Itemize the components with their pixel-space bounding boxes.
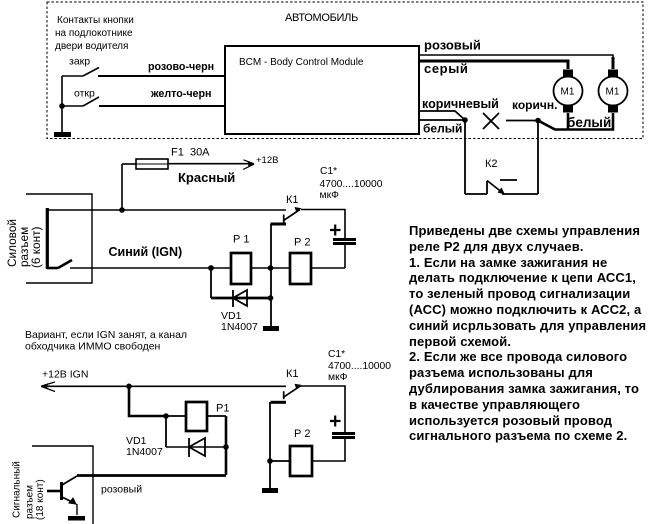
wire P1 right — [207, 415, 226, 417]
wire K2 right vertical — [537, 120, 539, 194]
switch open (откр) — [62, 97, 99, 106]
svg-text:+12В IGN: +12В IGN — [42, 369, 88, 381]
wire P1 right drop — [225, 416, 228, 475]
wire diode left drop (bottom) — [165, 416, 167, 447]
svg-text:розово-черн: розово-черн — [148, 61, 214, 73]
node diode right junction (bottom) — [223, 444, 229, 450]
svg-text:коричн.: коричн. — [512, 98, 557, 112]
wire коричневый — [419, 111, 465, 120]
wire розовый drop thick — [612, 57, 615, 69]
svg-text:Красный: Красный — [178, 170, 235, 185]
svg-text:Р 1: Р 1 — [233, 234, 250, 246]
svg-text:Р 2: Р 2 — [294, 237, 311, 249]
label door switch note — [55, 15, 134, 52]
node junction left of X — [462, 117, 468, 123]
svg-text:1N4007: 1N4007 — [221, 321, 258, 333]
svg-text:розовый: розовый — [101, 484, 142, 496]
svg-text:Сигнальный: Сигнальный — [12, 461, 23, 518]
relay contact K1 (bottom) — [271, 384, 302, 403]
fuse F1 — [136, 159, 168, 169]
svg-text:К1: К1 — [286, 368, 299, 380]
wire to P2 (bottom) — [270, 460, 290, 462]
relay contact K2 — [465, 180, 538, 195]
node P1 left junction — [208, 265, 214, 271]
relay contact K1 (middle) — [271, 207, 302, 224]
svg-text:4700....10000: 4700....10000 — [320, 179, 383, 190]
connector pin bar — [46, 208, 49, 269]
svg-text:BCM - Body Control Module: BCM - Body Control Module — [239, 57, 364, 68]
arrow +12V IGN — [41, 383, 48, 389]
node diode left junction — [208, 265, 214, 271]
label C1 value (bottom) — [328, 349, 391, 383]
wire +12 IGN bus — [41, 385, 286, 387]
wire K1 pivot down — [270, 224, 272, 327]
wire fuse drop vertical — [121, 164, 123, 210]
label C1 value — [320, 166, 383, 201]
capacitor C1 — [330, 225, 356, 269]
node switch common junction — [59, 103, 65, 109]
svg-text:мкФ: мкФ — [328, 372, 348, 383]
note text block right — [409, 223, 649, 444]
wire розово-черн — [98, 75, 225, 77]
relay coil P2 — [290, 253, 311, 284]
svg-text:белый: белый — [567, 115, 611, 130]
wire серый — [419, 61, 568, 69]
wire K1 pivot down (bottom) — [269, 402, 271, 489]
relay coil P1 — [231, 253, 251, 284]
connector signal (18 pin) box — [32, 446, 93, 524]
svg-text:Синий (IGN): Синий (IGN) — [109, 245, 183, 259]
cut mark X — [483, 113, 499, 129]
svg-text:разъем: разъем — [25, 485, 36, 519]
svg-text:откр: откр — [74, 88, 95, 100]
wire P2 to capacitor — [311, 267, 345, 269]
label VD1 1N4007 — [221, 310, 258, 333]
diode VD1 (middle) — [211, 290, 270, 307]
wire белый (from BCM) — [419, 119, 465, 121]
svg-text:обходчика ИММО свободен: обходчика ИММО свободен — [25, 341, 161, 353]
svg-text:закр: закр — [69, 56, 90, 68]
arrow +12V — [248, 161, 255, 167]
motor M1 right — [599, 70, 628, 113]
svg-text:С1*: С1* — [320, 166, 337, 177]
ground (middle) — [263, 326, 279, 331]
wire switch common vertical — [61, 76, 63, 133]
node IGN junction — [126, 384, 132, 390]
label Сигнальный разъем (18 конт) — [12, 461, 47, 520]
node K1 vertical junction — [268, 265, 274, 271]
wire to P1 — [166, 415, 186, 417]
wire diagonal to белый bus — [538, 113, 613, 130]
node P2 junction (bottom) — [267, 458, 273, 464]
svg-text:М1: М1 — [606, 87, 620, 98]
node fuse junction — [119, 207, 125, 213]
wire K1 to capacitor (bottom) — [300, 386, 345, 434]
switch ignition contact — [47, 260, 72, 268]
label Силовой разъем (6 конт) — [5, 219, 43, 268]
wire left motor to белый bus — [567, 113, 570, 129]
svg-text:4700....10000: 4700....10000 — [328, 361, 391, 372]
svg-text:белый: белый — [423, 122, 462, 136]
svg-text:М1: М1 — [561, 87, 575, 98]
svg-text:(18 конт): (18 конт) — [35, 479, 46, 520]
label VD1 1N4007 (bottom) — [126, 435, 163, 458]
svg-text:двери водителя: двери водителя — [55, 41, 128, 52]
wire K2 left vertical — [464, 120, 466, 194]
wire +12 bus to K1 — [48, 209, 286, 211]
svg-text:+12В: +12В — [256, 155, 278, 166]
svg-text:мкФ: мкФ — [320, 190, 340, 201]
BCM module box U1 — [225, 46, 419, 134]
wire K1 to capacitor top — [301, 210, 345, 241]
svg-text:АВТОМОБИЛЬ: АВТОМОБИЛЬ — [285, 12, 358, 24]
motor M1 left — [554, 70, 583, 113]
svg-text:1N4007: 1N4007 — [126, 446, 163, 458]
wire коричн. stub — [506, 120, 538, 122]
svg-text:Р 2: Р 2 — [294, 428, 311, 440]
label Вариант note — [25, 329, 187, 353]
svg-text:розовый: розовый — [424, 38, 481, 53]
ground (bottom relay) — [262, 488, 278, 493]
capacitor C1 (bottom) — [312, 416, 355, 462]
svg-text:F1 30А: F1 30А — [171, 147, 210, 159]
svg-text:К1: К1 — [286, 194, 299, 206]
relay coil P2 (bottom) — [290, 446, 312, 476]
wire розовый bus — [77, 474, 226, 477]
svg-text:К2: К2 — [485, 158, 498, 170]
svg-text:на подлокотнике: на подлокотнике — [55, 28, 133, 39]
wire to +12V arrow — [168, 163, 250, 165]
wire drop to P1 (bottom) — [129, 386, 166, 416]
ground (door switches) — [54, 132, 71, 137]
car outline dashed box — [47, 2, 643, 139]
relay coil P1 (bottom) — [186, 402, 207, 431]
svg-text:(6 конт): (6 конт) — [29, 226, 43, 268]
node diode right junction — [268, 295, 274, 301]
diode VD1 (bottom) — [166, 438, 226, 457]
connector power (6 pin) box — [26, 194, 92, 283]
node junction right of X — [535, 118, 541, 124]
svg-text:серый: серый — [424, 61, 469, 76]
wire розовый — [419, 55, 613, 69]
wire Синий (IGN) — [70, 267, 290, 269]
wire diode left drop — [210, 268, 212, 298]
svg-text:коричневый: коричневый — [422, 97, 499, 111]
svg-text:Р1: Р1 — [216, 403, 229, 415]
ground (transistor) — [68, 516, 85, 521]
wire желто-черн — [99, 105, 225, 107]
wire fuse feed — [122, 163, 136, 165]
svg-text:С1*: С1* — [328, 349, 345, 360]
svg-text:Контакты кнопки: Контакты кнопки — [57, 15, 134, 26]
node P1 left junction (bottom) — [163, 413, 169, 419]
svg-text:Вариант, если IGN занят, а кан: Вариант, если IGN занят, а канал — [25, 329, 187, 341]
transistor Q1 — [47, 476, 77, 515]
switch closed (закр) — [62, 68, 99, 77]
svg-text:желто-черн: желто-черн — [150, 88, 211, 100]
